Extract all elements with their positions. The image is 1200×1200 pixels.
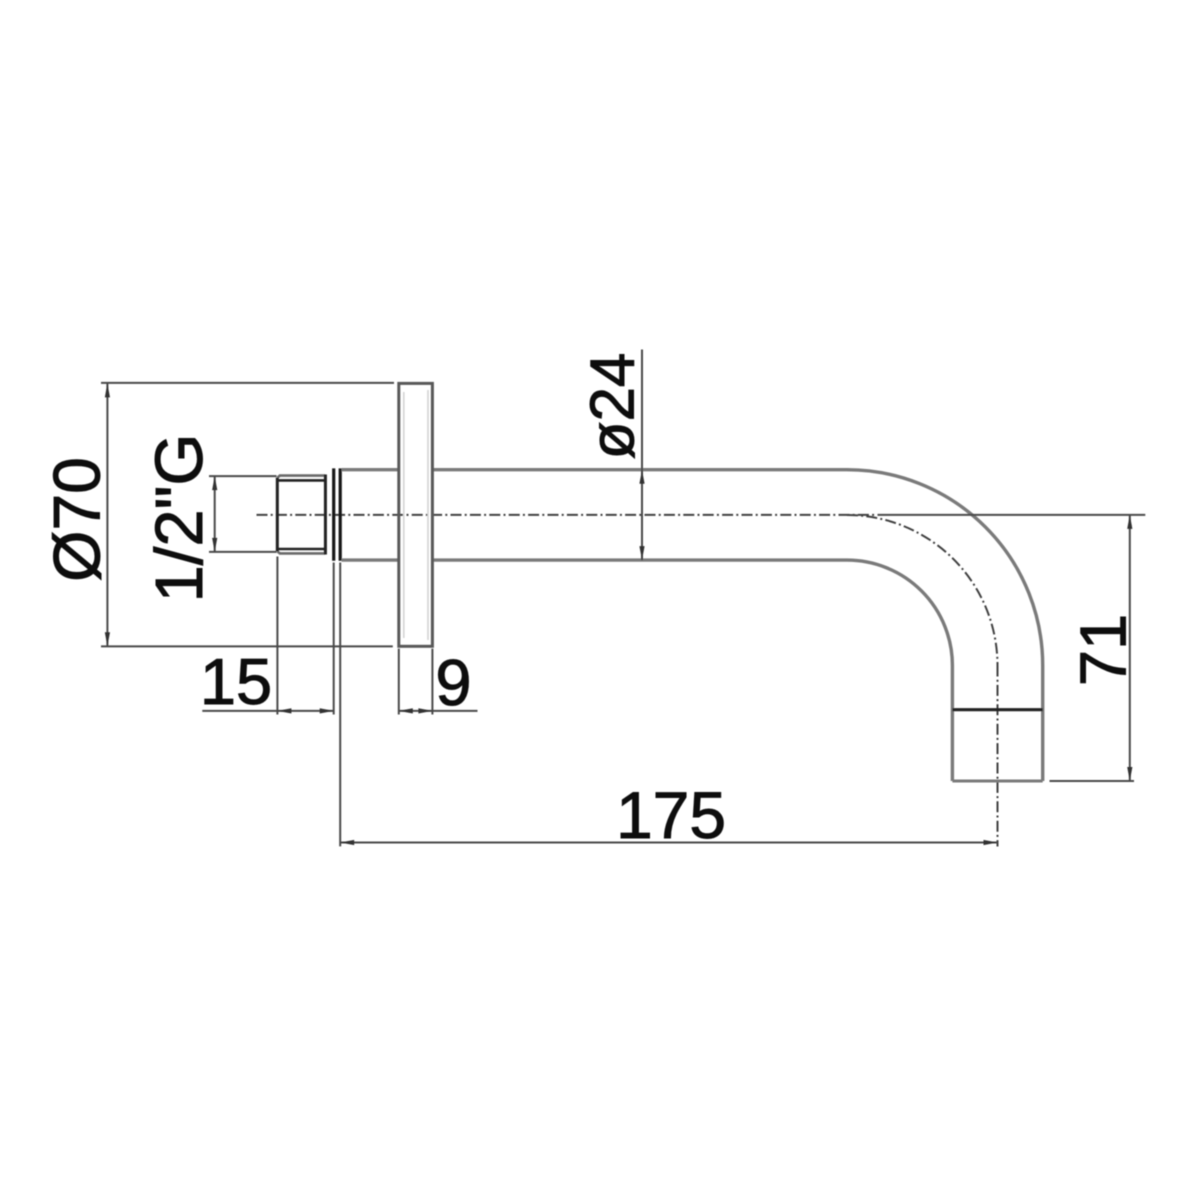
svg-text:71: 71 xyxy=(1067,614,1140,686)
svg-text:175: 175 xyxy=(616,778,726,852)
svg-text:15: 15 xyxy=(200,645,272,718)
svg-text:Ø70: Ø70 xyxy=(40,457,114,582)
svg-text:1/2"G: 1/2"G xyxy=(142,433,217,602)
svg-text:ø24: ø24 xyxy=(579,353,648,460)
svg-text:9: 9 xyxy=(435,646,471,719)
